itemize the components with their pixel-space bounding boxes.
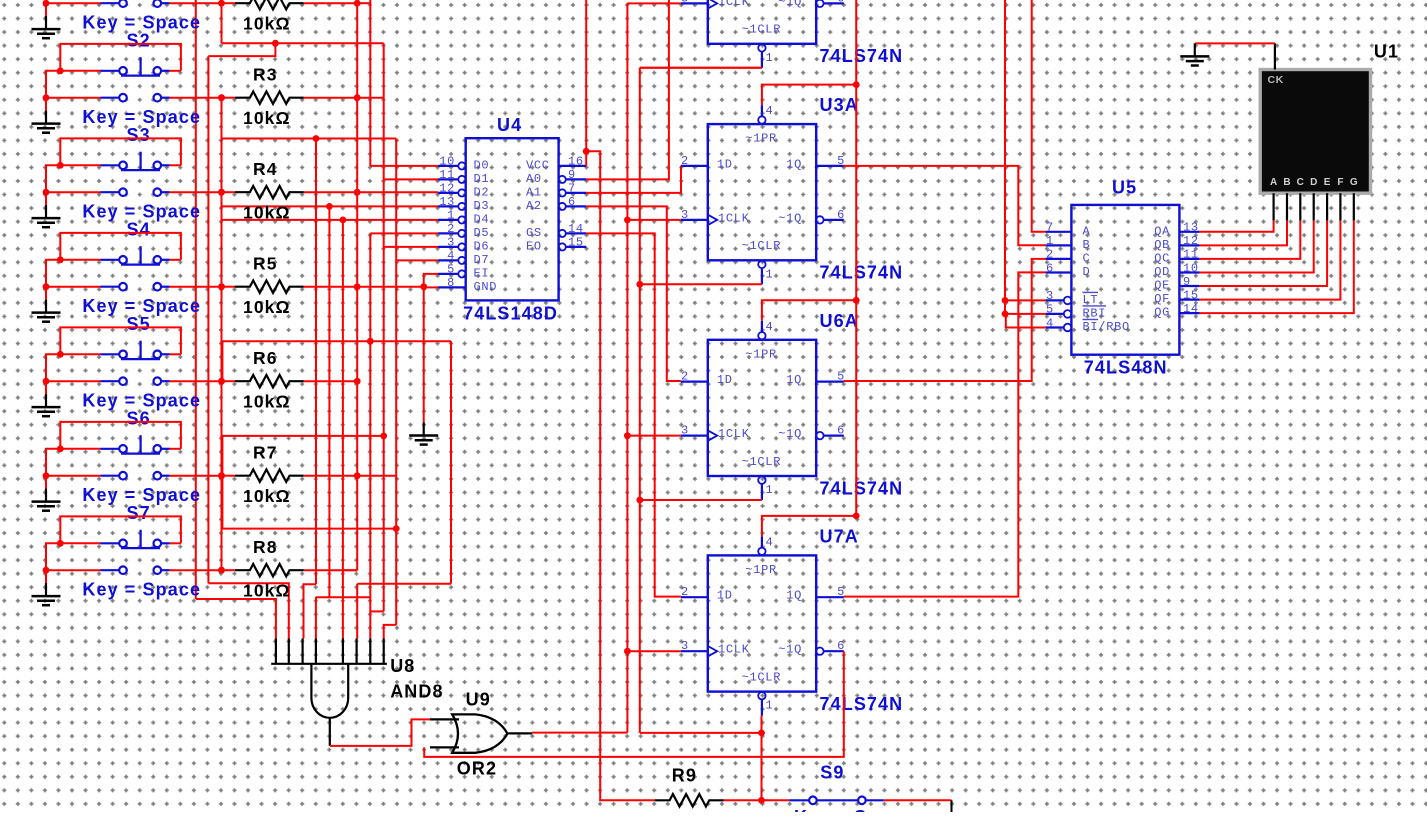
svg-text:16: 16: [568, 155, 584, 169]
wire: [221, 3, 223, 43]
svg-text:6: 6: [837, 424, 845, 438]
svg-text:D4: D4: [474, 212, 490, 226]
svg-text:7: 7: [568, 182, 576, 196]
svg-text:S9: S9: [820, 762, 844, 782]
U5 pin 9 QE: [1179, 285, 1199, 287]
svg-text:B: B: [1283, 177, 1290, 188]
svg-text:6: 6: [837, 208, 845, 222]
U7A pin 3 1CLK: [681, 650, 708, 652]
wire: [1195, 42, 1275, 44]
junction: [853, 297, 860, 304]
svg-text:3: 3: [1046, 289, 1054, 303]
wire: [724, 799, 762, 801]
U4 pin 13 D3: [438, 205, 458, 207]
U4 pin 5 EI: [438, 273, 458, 275]
svg-text:U8: U8: [390, 656, 415, 676]
svg-text:8: 8: [447, 276, 455, 290]
junction: [354, 378, 361, 385]
wire bus V9: [328, 206, 330, 597]
svg-text:~1PR: ~1PR: [745, 563, 777, 577]
wire: [330, 719, 432, 746]
U6A pin 6 ~1Q: [816, 432, 823, 439]
junction: [218, 567, 225, 574]
wire bracket S3: [60, 138, 181, 165]
wire A0: [586, 0, 669, 179]
junction: [218, 94, 225, 101]
junction: [43, 378, 50, 385]
U2A pin 6 ~1Q: [816, 0, 823, 7]
U1 pin D: [1313, 193, 1315, 220]
U4 pin 10 D0: [438, 165, 458, 167]
svg-text:A: A: [1083, 224, 1091, 238]
wire U3A clear: [640, 283, 762, 285]
svg-text:QC: QC: [1154, 251, 1170, 265]
svg-text:10kΩ: 10kΩ: [243, 581, 291, 601]
junction: [853, 81, 860, 88]
U4 pin 14 GS: [559, 230, 566, 237]
junction: [340, 217, 347, 224]
svg-text:12: 12: [439, 182, 455, 196]
wire clock branch: [627, 435, 681, 437]
U3A pin 2 1D: [681, 165, 708, 167]
svg-text:QA: QA: [1154, 224, 1170, 238]
wire bracket S6: [60, 422, 181, 449]
junction: [758, 797, 765, 804]
U4 pin 7 A1: [559, 189, 566, 196]
U1 pin C: [1299, 193, 1301, 220]
svg-text:~1Q: ~1Q: [778, 427, 802, 441]
wire: [222, 2, 236, 4]
svg-text:Key = Space: Key = Space: [794, 807, 913, 812]
svg-text:1: 1: [766, 699, 774, 713]
wire EI: [424, 274, 438, 423]
wire: [304, 97, 357, 99]
U4 pin 12 D2: [438, 192, 458, 194]
wire U7A preset: [762, 516, 856, 537]
wire: [222, 569, 236, 571]
wire GS to U7A 1D: [586, 233, 681, 596]
wire: [46, 2, 101, 4]
svg-text:1: 1: [766, 267, 774, 281]
svg-text:D: D: [1083, 265, 1091, 279]
wire: [884, 799, 952, 801]
wire: [1200, 221, 1328, 286]
resistor R2: [235, 0, 304, 9]
wire S5 right: [170, 353, 181, 355]
wire: [207, 56, 209, 583]
wire: [46, 260, 60, 287]
wire: [304, 286, 357, 288]
svg-text:QF: QF: [1154, 292, 1170, 306]
wire S7 left: [60, 542, 100, 544]
wire H2: [357, 583, 451, 585]
wire: [170, 191, 222, 193]
junction: [1002, 297, 1009, 304]
wire bracket S7: [60, 516, 181, 543]
svg-text:15: 15: [568, 236, 584, 250]
svg-text:1D: 1D: [717, 589, 733, 603]
wire D1 row: [384, 178, 438, 180]
wire bus V11a: [356, 0, 358, 570]
svg-text:U1: U1: [1374, 42, 1399, 62]
wire LT: [1005, 299, 1046, 301]
U5 pin 7 A: [1046, 231, 1072, 233]
U5 pin 3 LT: [1046, 299, 1064, 301]
wire: [221, 98, 223, 139]
svg-text:U7A: U7A: [820, 526, 859, 546]
wire: [532, 732, 627, 734]
svg-text:D2: D2: [474, 185, 490, 199]
U6A pin 1 ~1CLR: [758, 476, 765, 483]
junction S4: [57, 256, 64, 263]
junction: [583, 148, 590, 155]
wire: [1200, 221, 1274, 232]
wire: [46, 354, 60, 381]
svg-text:1CLK: 1CLK: [718, 211, 750, 225]
wire R7 step row: [222, 435, 383, 437]
gate U9 OR2: [430, 718, 459, 720]
svg-text:1Q: 1Q: [786, 157, 802, 171]
svg-text:QD: QD: [1154, 265, 1170, 279]
svg-text:3: 3: [447, 236, 455, 250]
svg-text:12: 12: [1183, 234, 1199, 248]
wire S4 right: [170, 259, 181, 261]
wire: [222, 138, 397, 140]
svg-text:BI/RBO: BI/RBO: [1083, 320, 1130, 334]
U5 pin 13 QA: [1179, 231, 1199, 233]
svg-text:B: B: [1083, 238, 1091, 252]
wire: [844, 166, 1046, 245]
wire D4 row: [222, 219, 439, 221]
wire to ground: [45, 98, 47, 113]
svg-text:3: 3: [681, 424, 689, 438]
wire: [627, 2, 681, 4]
wire: [640, 732, 762, 734]
svg-text:11: 11: [439, 168, 455, 182]
wire bus V13: [383, 43, 385, 611]
wire to ground: [45, 476, 47, 491]
svg-text:11: 11: [1183, 248, 1199, 262]
junction: [354, 189, 361, 196]
wire H3: [316, 596, 370, 598]
ground: [32, 111, 61, 133]
wire GND: [424, 286, 438, 288]
svg-text:R4: R4: [253, 159, 278, 179]
U4 pin 4 D7: [438, 259, 458, 261]
wire D5 row: [370, 232, 438, 234]
svg-text:U6A: U6A: [820, 311, 859, 331]
svg-text:~1CLR: ~1CLR: [742, 23, 782, 37]
U4 pin 9 A0: [559, 176, 566, 183]
wire: [222, 475, 236, 477]
junction: [853, 513, 860, 520]
wire: [46, 165, 60, 192]
svg-text:3: 3: [681, 208, 689, 222]
wire U6A preset: [762, 300, 856, 321]
wire to U8 in4: [315, 597, 317, 639]
wire jog H5 to U8 in8: [384, 625, 397, 639]
wire: [170, 380, 222, 382]
wire: [304, 569, 357, 571]
wire bus V18: [586, 151, 600, 800]
U3A pin 3 1CLK: [681, 219, 708, 221]
svg-text:EI: EI: [474, 266, 490, 280]
svg-text:5: 5: [1046, 303, 1054, 317]
svg-text:~1Q: ~1Q: [778, 211, 802, 225]
svg-text:A1: A1: [526, 185, 542, 199]
resistor R8: [235, 564, 304, 576]
svg-text:R3: R3: [253, 65, 278, 85]
svg-text:A0: A0: [526, 172, 542, 186]
wire S5 left: [60, 353, 100, 355]
wire: [46, 569, 101, 571]
svg-text:10kΩ: 10kΩ: [243, 392, 291, 412]
wire bus V14: [395, 139, 397, 625]
svg-text:GND: GND: [474, 280, 498, 294]
junction S5: [57, 351, 64, 358]
U7A pin 1 ~1CLR: [758, 692, 765, 699]
U6A pin 3 1CLK: [681, 435, 708, 437]
seven-segment display U1: [1260, 70, 1370, 194]
wire: [46, 380, 101, 382]
svg-text:RBI: RBI: [1083, 306, 1107, 320]
svg-text:1Q: 1Q: [786, 373, 802, 387]
junction: [218, 567, 225, 574]
svg-text:4: 4: [766, 320, 774, 334]
wire: [304, 380, 357, 382]
U4 pin 3 D6: [438, 246, 458, 248]
wire: [222, 340, 451, 342]
wire R2 step: [208, 43, 275, 56]
junction: [354, 283, 361, 290]
resistor R7: [235, 470, 304, 482]
wire R2 step row: [222, 42, 384, 44]
svg-text:S3: S3: [127, 125, 151, 145]
U7A pin 2 1D: [681, 596, 708, 598]
wire to ground: [45, 570, 47, 585]
wire: [221, 341, 224, 381]
svg-text:CK: CK: [1268, 74, 1284, 86]
junction: [636, 497, 643, 504]
IC U4 74LS148D: [466, 138, 559, 300]
junction: [218, 378, 225, 385]
junction: [393, 525, 400, 532]
U4 pin 11 D1: [438, 178, 458, 180]
wire S7 right: [170, 542, 181, 544]
svg-text:C: C: [1083, 251, 1091, 265]
wire U2A clear: [640, 67, 762, 69]
U5 pin 12 QB: [1179, 244, 1199, 246]
wire: [222, 97, 236, 99]
svg-text:4: 4: [766, 535, 774, 549]
resistor R6: [235, 375, 304, 387]
junction: [218, 0, 225, 7]
svg-text:6: 6: [837, 0, 845, 5]
svg-text:10kΩ: 10kΩ: [243, 14, 291, 34]
svg-text:13: 13: [1183, 221, 1199, 235]
svg-text:1D: 1D: [717, 373, 733, 387]
svg-text:9: 9: [1183, 275, 1191, 289]
ground: [32, 300, 61, 322]
junction: [218, 472, 225, 479]
svg-text:10kΩ: 10kΩ: [243, 297, 291, 317]
svg-text:S7: S7: [127, 503, 151, 523]
ground: [32, 394, 61, 416]
svg-text:74LS74N: 74LS74N: [820, 46, 904, 66]
wire: [1200, 221, 1287, 246]
svg-text:D: D: [1310, 177, 1317, 188]
svg-text:~1Q: ~1Q: [778, 0, 802, 9]
wire: [855, 0, 857, 517]
svg-text:74LS48N: 74LS48N: [1084, 358, 1168, 378]
wire: [1200, 221, 1314, 273]
wire bracket S4: [60, 233, 181, 260]
svg-text:74LS74N: 74LS74N: [820, 263, 904, 283]
wire S2 right: [170, 70, 181, 72]
svg-text:D0: D0: [474, 158, 490, 172]
svg-text:S5: S5: [127, 314, 151, 334]
ground at U1 CK: [1180, 43, 1209, 65]
U2A pin 1 ~1CLR: [758, 44, 765, 51]
U6A pin 5 1Q: [816, 381, 844, 383]
U6A pin 2 1D: [681, 381, 708, 383]
svg-text:A2: A2: [526, 199, 542, 213]
wire A1: [586, 166, 681, 193]
junction: [218, 283, 225, 290]
U2A pin 3 1CLK: [681, 2, 708, 4]
wire: [46, 475, 101, 477]
U1 pin E: [1326, 193, 1328, 220]
ground: [32, 583, 61, 605]
U4 pin 16 VCC: [559, 165, 587, 167]
junction: [326, 203, 333, 210]
wire to ground: [45, 381, 47, 396]
svg-text:1D: 1D: [717, 157, 733, 171]
wire bus V12b: [369, 233, 371, 638]
svg-text:2: 2: [447, 222, 455, 236]
wire: [46, 286, 101, 288]
U4 pin 8 GND: [438, 286, 466, 288]
junction: [636, 281, 643, 288]
wire: [46, 543, 60, 570]
junction: [43, 0, 50, 7]
junction: [380, 433, 387, 440]
ground: [32, 16, 61, 38]
wire jog H4: [370, 610, 383, 612]
wire to U8 in1: [196, 599, 276, 639]
wire D2 row: [357, 191, 438, 193]
wire: [357, 97, 384, 99]
svg-text:D1: D1: [474, 172, 490, 186]
wire R7 lower step: [222, 476, 396, 529]
wire: [762, 799, 790, 801]
wire bus V12a: [369, 0, 371, 166]
svg-text:74LS148D: 74LS148D: [463, 304, 558, 324]
junction: [218, 189, 225, 196]
junction: [624, 217, 631, 224]
wire: [599, 799, 655, 801]
svg-text:74LS74N: 74LS74N: [820, 694, 904, 714]
U7A pin 5 1Q: [816, 596, 844, 598]
wire: [585, 0, 587, 166]
junction: [218, 378, 225, 385]
ground: [32, 489, 61, 511]
junction: [218, 472, 225, 479]
svg-text:G: G: [1350, 177, 1358, 188]
svg-text:9: 9: [568, 168, 576, 182]
junction S3: [57, 162, 64, 169]
wire: [844, 272, 1046, 596]
wire bracket S2: [60, 44, 181, 71]
wire: [357, 286, 424, 288]
svg-text:~1PR: ~1PR: [745, 132, 777, 146]
wire bus V10: [342, 220, 344, 639]
svg-text:4: 4: [766, 104, 774, 118]
wire: [304, 2, 357, 4]
svg-text:10: 10: [439, 155, 455, 169]
junction: [354, 472, 361, 479]
wire A2 to U6A 1D: [586, 206, 681, 381]
wire S3 right: [170, 164, 181, 166]
svg-text:4: 4: [447, 249, 455, 263]
svg-text:D7: D7: [474, 253, 490, 267]
U1 pin B: [1286, 193, 1288, 220]
svg-text:~1Q: ~1Q: [778, 643, 802, 657]
U3A pin 4 ~1PR: [758, 116, 765, 123]
wire D7 row: [396, 259, 438, 261]
U3A pin 6 ~1Q: [816, 216, 823, 223]
svg-text:1: 1: [766, 483, 774, 497]
svg-text:1CLK: 1CLK: [718, 0, 750, 9]
svg-text:S2: S2: [127, 31, 151, 51]
svg-text:QE: QE: [1154, 279, 1170, 293]
resistor R4: [235, 186, 304, 198]
U1 pin F: [1339, 193, 1341, 220]
svg-text:1Q: 1Q: [786, 589, 802, 603]
IC U5 74LS48N: [1071, 205, 1179, 355]
resistor R9 body: [655, 794, 724, 806]
svg-text:R7: R7: [253, 443, 278, 463]
wire: [304, 191, 357, 193]
junction: [624, 648, 631, 655]
U5 pin 2 C: [1046, 258, 1072, 260]
svg-text:Key = Space: Key = Space: [82, 580, 201, 600]
svg-text:10kΩ: 10kΩ: [243, 203, 291, 223]
U4 pin 15 EO: [559, 243, 566, 250]
wire: [170, 569, 222, 571]
U5 pin 10 QD: [1179, 271, 1199, 273]
wire S3 left: [60, 164, 100, 166]
wire: [170, 2, 222, 4]
svg-text:7: 7: [1046, 221, 1054, 235]
resistor R3: [235, 92, 304, 104]
wire: [46, 449, 60, 476]
svg-text:D5: D5: [474, 226, 490, 240]
junction: [354, 0, 361, 7]
svg-text:LT: LT: [1083, 293, 1099, 307]
junction: [43, 189, 50, 196]
U5 pin 1 B: [1046, 244, 1072, 246]
wire to U8 in3: [304, 584, 317, 638]
wire bracket S5: [60, 327, 181, 354]
U1 pin G: [1353, 193, 1355, 220]
junction: [313, 135, 320, 142]
svg-text:R8: R8: [253, 537, 278, 557]
wire: [626, 3, 628, 732]
U5 pin 11 QC: [1179, 258, 1199, 260]
ground: [32, 205, 61, 227]
wire: [639, 68, 641, 733]
